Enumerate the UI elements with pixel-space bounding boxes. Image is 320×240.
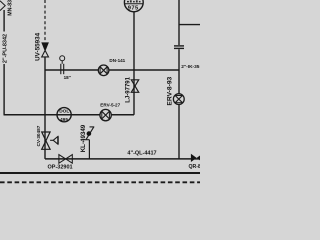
svg-text:975: 975	[128, 6, 139, 12]
svg-text:UV-55934: UV-55934	[35, 32, 42, 61]
node: label mask on left pipe	[1, 32, 8, 65]
border line (solid)	[0, 172, 200, 174]
svg-text:MN-8342: MN-8342	[8, 0, 14, 16]
off-page connector flag top-left	[0, 1, 5, 11]
instrument valve circle-X ERV-5-27	[100, 109, 111, 120]
wire: vertical from bubble down x=134	[133, 12, 135, 115]
instrument bubble 975 (top)	[124, 0, 143, 12]
svg-text:OP-32901: OP-32901	[48, 164, 73, 170]
wire: dashed instrument signal to UV-55934	[44, 0, 46, 42]
svg-text:18": 18"	[64, 75, 71, 80]
svg-text:CV-30487: CV-30487	[36, 125, 41, 146]
svg-text:4"-QL-4417: 4"-QL-4417	[127, 150, 156, 156]
component KL-49349 (angle instrument with dot)	[85, 127, 95, 140]
valve CV-30487 (vertical bowtie)	[42, 132, 50, 149]
wire: right branch y=24.6	[179, 24, 200, 26]
orifice flange pair 18"	[60, 56, 65, 74]
svg-text:ERV-5-27: ERV-5-27	[100, 102, 120, 107]
wire: right pipe x=179	[178, 0, 180, 45]
svg-text:2"-IK-35: 2"-IK-35	[181, 64, 200, 70]
svg-text:2"-PU-8342: 2"-PU-8342	[3, 34, 9, 63]
node: signal arrowhead	[41, 42, 49, 51]
svg-text:495: 495	[60, 117, 68, 123]
svg-text:ERV-8-93: ERV-8-93	[167, 76, 174, 105]
valve LJ-97791 (vertical bowtie)	[131, 80, 138, 93]
svg-text:QR-84: QR-84	[189, 164, 201, 170]
svg-text:LJ-97791: LJ-97791	[125, 76, 131, 102]
svg-text:DOL: DOL	[59, 108, 69, 114]
svg-text:DN-141: DN-141	[109, 58, 125, 63]
valve OP-32901 (horizontal bowtie)	[59, 155, 72, 164]
wire: right pipe below valve	[178, 105, 180, 159]
wire: left pipe vertical 2"-PU-8342	[3, 10, 5, 115]
node: partial top-row tag text in bubble	[127, 0, 141, 2]
valve UV-55934	[42, 50, 49, 57]
svg-text:KL-49349: KL-49349	[80, 124, 87, 152]
instrument valve circle-X ERV-8-93	[173, 94, 184, 105]
border line (dashed battery limit)	[0, 181, 200, 183]
wire: main horizontal line y=70	[45, 69, 179, 71]
wire: bottom pipeline y=158.9	[45, 158, 200, 160]
node: side vent flag on CV-30487	[50, 136, 58, 144]
instrument valve circle-X DN-141	[98, 65, 109, 76]
node: double flange / spectacle on right pipe	[174, 45, 184, 47]
wire: vertical pipe x=45 from UV valve to bottom line	[44, 57, 46, 159]
wire: left horizontal header y=114.8	[4, 114, 135, 116]
wire: KL branch down	[88, 140, 90, 159]
valve QR-84 (filled bowtie, right edge)	[191, 154, 202, 162]
instrument bubble DOL 495	[57, 108, 71, 122]
